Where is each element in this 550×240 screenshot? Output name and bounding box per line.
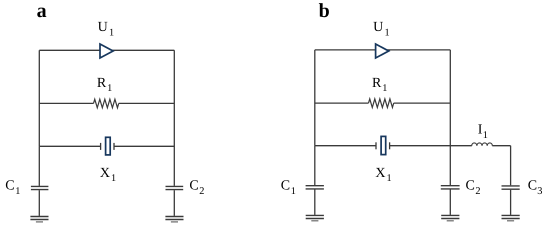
wire: C2 to ground xyxy=(173,190,175,216)
ground (under C1) xyxy=(30,217,48,222)
ground (under C3) xyxy=(502,215,520,220)
wire: circuit a X1 row xyxy=(39,145,174,147)
label C1 xyxy=(5,179,20,197)
label X1 xyxy=(100,166,116,184)
label R1 xyxy=(97,76,112,94)
svg-text:U: U xyxy=(98,20,108,35)
wire: circuit b R1 row xyxy=(315,102,451,104)
wire: circuit a R1 row xyxy=(39,102,174,104)
svg-text:a: a xyxy=(37,0,47,22)
wire: C1 to ground xyxy=(38,190,40,216)
capacitor C1 xyxy=(31,186,49,189)
capacitor C3 xyxy=(502,186,520,189)
op-amp U1 of circuit b (buffer triangle) xyxy=(376,44,389,58)
svg-text:1: 1 xyxy=(291,186,296,197)
label R1 (circuit b) xyxy=(372,76,387,94)
capacitor C2 xyxy=(166,186,184,189)
label X1 (circuit b) xyxy=(375,166,391,184)
wire: circuit b left rail xyxy=(314,50,316,146)
op-amp U1 (buffer triangle) xyxy=(100,44,113,58)
wire: inductor to C3 corner xyxy=(492,146,510,186)
svg-text:U: U xyxy=(373,20,383,35)
svg-text:C: C xyxy=(189,179,198,194)
svg-text:1: 1 xyxy=(15,186,20,197)
wire: circuit a left rail xyxy=(38,50,40,146)
svg-text:2: 2 xyxy=(199,186,204,197)
svg-text:C: C xyxy=(5,179,14,194)
capacitor C1 (circuit b) xyxy=(306,186,324,189)
svg-text:b: b xyxy=(319,0,330,22)
panel label b xyxy=(319,0,330,22)
svg-text:1: 1 xyxy=(483,130,488,141)
label I1 xyxy=(478,123,488,141)
svg-text:X: X xyxy=(100,166,110,181)
ground (under C2, circuit b) xyxy=(441,215,459,220)
label U1 xyxy=(98,20,115,38)
label C3 xyxy=(528,179,543,198)
svg-text:R: R xyxy=(372,76,382,91)
wire: circuit a top rail xyxy=(39,49,174,51)
label C2 (circuit b) xyxy=(466,179,481,197)
wire: circuit b X1 row (extends right to inductor) xyxy=(315,145,472,147)
wire: C3 to ground xyxy=(510,190,512,215)
wire: stub above C1 xyxy=(38,146,40,186)
wire: C2 to ground (circuit b) xyxy=(449,190,451,215)
capacitor C2 (circuit b) xyxy=(441,186,460,189)
crystal X1 (circuit b) xyxy=(376,136,390,154)
wire: circuit a right rail xyxy=(173,50,175,186)
label C2 xyxy=(189,179,204,197)
svg-text:C: C xyxy=(466,179,475,194)
svg-text:C: C xyxy=(528,179,537,194)
label C1 (circuit b) xyxy=(281,179,296,197)
resistor R1 (circuit b) xyxy=(369,99,394,108)
wire: circuit b top rail xyxy=(315,49,451,51)
ground (under C2) xyxy=(165,217,183,222)
label U1 (circuit b) xyxy=(373,20,390,38)
svg-text:1: 1 xyxy=(107,83,112,94)
svg-text:1: 1 xyxy=(385,27,390,38)
wire: C1 to ground (circuit b) xyxy=(314,190,316,215)
inductor I1 xyxy=(472,143,493,146)
wire: stub above C1 (circuit b) xyxy=(314,146,316,186)
panel label a xyxy=(37,0,47,22)
svg-text:1: 1 xyxy=(111,173,116,184)
svg-text:R: R xyxy=(97,76,107,91)
ground (under C1, circuit b) xyxy=(306,215,324,220)
svg-text:3: 3 xyxy=(537,186,542,197)
svg-text:X: X xyxy=(375,166,385,181)
resistor R1 xyxy=(94,99,119,108)
svg-text:C: C xyxy=(281,179,290,194)
crystal X1 xyxy=(101,137,114,155)
svg-text:1: 1 xyxy=(387,173,392,184)
wire: circuit b right rail xyxy=(449,50,451,185)
svg-text:2: 2 xyxy=(475,186,480,197)
svg-text:1: 1 xyxy=(382,83,387,94)
svg-text:1: 1 xyxy=(109,27,114,38)
